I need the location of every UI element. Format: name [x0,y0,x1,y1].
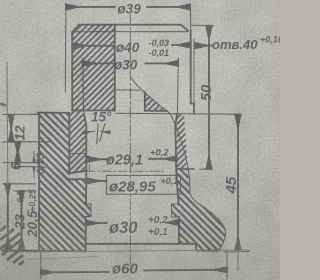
leader отв.40 [196,45,212,47]
extension taper end [3,141,50,143]
die left outer wall [71,32,73,111]
extension 23 top [3,183,36,185]
cavity right wall [175,126,178,204]
cavity left taper [84,114,86,126]
bottom recess step right [195,244,197,251]
hatch: die material right of bore in break-out window [145,92,167,111]
cavity left wall lower [85,217,87,244]
stray corner hatch block [0,226,24,265]
wavy break line [131,77,226,251]
cavity right taper [175,114,177,126]
dim 50 line [208,27,210,169]
holder bottom face left [2,250,86,253]
holder bottom face right [196,250,219,252]
dim 0,75 arrow above [33,151,35,162]
dim 45 extension bottom [224,251,250,254]
dim Ø30 top extension right [176,58,179,113]
die top chamfer right [181,25,188,31]
dim 12 line [10,115,12,142]
die inner step left [72,109,115,111]
hatch: holder ring right section [172,169,226,251]
centerline vertical axis [129,14,131,272]
dim Ø28,95 line with left arrow [87,180,106,182]
cavity right ring land tab [172,204,180,217]
cavity right wall lower [178,217,180,244]
dash-dot gauge line [86,170,163,172]
bottom recess step left [85,244,87,252]
dim 15deg leg slanted [100,124,106,142]
stray page rule line [6,62,9,184]
die bore right wall [144,92,146,111]
dim Ø39 line [66,6,115,8]
dim 15deg leg vertical [97,124,98,144]
extension 0,75 lower [15,166,38,168]
die outer step right [191,104,194,114]
hatch: holder ring left section [39,113,91,251]
dim 45 line [237,115,239,250]
dim 0,75 arrow below [33,167,35,178]
dim Ø29,1 line [88,158,109,160]
dim 20,5 line [21,191,23,249]
land top edge line [69,153,86,155]
small step tick in cavity [88,165,90,173]
hole wall extension отв.40 [193,39,195,104]
die bottom face right [176,168,194,170]
dim 15deg arrow left [84,131,95,133]
holder top face right with extension to 45 dim [116,112,240,115]
die top face [79,24,181,26]
extension top face far left [3,113,38,115]
dim Ø39 extension right [190,9,192,31]
dim 15deg arrow right [101,131,111,132]
frame box around Ø28,95 [107,175,181,194]
die lower left wall joint [68,113,70,174]
die bore left wall [114,25,116,111]
stray mark left edge [0,103,6,106]
bottom recess ceiling [86,243,196,245]
cavity left ring land tab [86,204,91,217]
dim Ø30 top extension left [82,58,85,112]
extension land line [3,162,38,164]
dim Ø60 extension left [40,252,42,279]
holder left outer wall [38,113,40,251]
hatch: die sliver right of cavity in break-out window [176,114,189,169]
page line under part [18,250,250,252]
dim Ø30 bottom line [86,222,107,224]
dim 45 line tail [237,249,239,270]
shading bottom-left [0,218,58,280]
die top chamfer left [72,25,79,32]
die bottom face left [69,171,86,173]
die inner step right [145,110,167,112]
dim 50 extension bottom [200,168,213,170]
dim Ø39 extension left [64,9,67,92]
dim Ø30 top line [83,62,113,64]
dim Ø40 line [74,45,115,47]
dim 23-0,5 line [7,184,9,249]
holder top face left [38,112,70,114]
holder ring shoulder left [69,178,86,180]
thin line at bore bottom [115,89,140,92]
dim Ø60 extension right [226,254,228,280]
die chamfer bottom edge [72,31,188,33]
dim 50 extension top [192,24,214,26]
dim 6 line [17,142,19,163]
hatch: die insert left wall section [69,25,115,174]
dim Ø60 line [41,271,109,273]
cavity left wall [85,126,87,204]
die right outer wall [190,31,192,104]
extension 20,5 top [14,190,36,192]
